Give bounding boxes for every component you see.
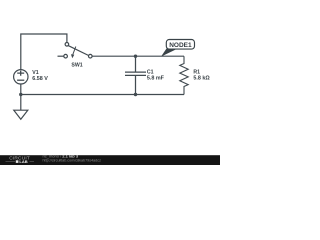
svg-text:6.58 V: 6.58 V bbox=[32, 76, 48, 82]
svg-text:NODE1: NODE1 bbox=[169, 42, 192, 49]
svg-text:5.8 kΩ: 5.8 kΩ bbox=[193, 75, 210, 81]
svg-text:SW1: SW1 bbox=[71, 63, 82, 69]
svg-text:LAB: LAB bbox=[19, 159, 27, 164]
svg-text:5.8 mF: 5.8 mF bbox=[147, 75, 165, 81]
svg-text:http://circuitlab.com/c8kab79s: http://circuitlab.com/c8kab79s4adcz bbox=[43, 158, 102, 162]
